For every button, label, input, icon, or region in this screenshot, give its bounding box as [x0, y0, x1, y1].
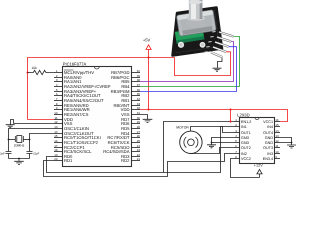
encoder mounting holes	[178, 42, 184, 48]
PIC pin 4 (RA2/AN2/VREF-/CVREF) stub	[54, 86, 63, 88]
L293D pin 6 (OUT2) stub	[235, 147, 240, 149]
capacitor C1 22pF	[6, 140, 12, 159]
svg-text:IN4: IN4	[267, 125, 273, 129]
svg-text:40: 40	[137, 69, 141, 73]
ground oscillator	[14, 159, 24, 165]
resistor R1 10k	[28, 70, 55, 74]
svg-text:20MHz: 20MHz	[14, 143, 25, 147]
PIC pin 1 (MCLR/Vpp/THV) stub	[54, 72, 63, 74]
svg-text:15: 15	[275, 123, 279, 127]
svg-text:20: 20	[54, 157, 58, 161]
svg-text:32: 32	[137, 106, 141, 110]
node crystal right	[29, 139, 31, 141]
wire VDD pin11	[28, 119, 55, 121]
encoder green base plate	[175, 27, 205, 43]
svg-text:13: 13	[54, 125, 58, 129]
svg-text:IN2: IN2	[241, 152, 247, 156]
PIC pin 39 (RB6/PGC) stub	[132, 77, 141, 79]
crystal X1 20MHz	[9, 139, 16, 141]
wire EN1,2 down to RD0 bus	[164, 122, 235, 173]
svg-text:21: 21	[137, 157, 141, 161]
ground motor	[207, 143, 216, 148]
svg-text:25: 25	[137, 139, 141, 143]
PIC pin 16 (RC1/T1OSI/CCP2) stub	[54, 142, 63, 144]
svg-text:22pF: 22pF	[0, 153, 5, 156]
junction node motor gnd	[211, 142, 213, 144]
L293D pin 1 (EN1,2) stub	[235, 121, 240, 123]
encoder shaft bushing	[187, 18, 205, 28]
wire VCC2 pin8 to +12V	[231, 159, 260, 178]
encoder pins	[219, 32, 234, 37]
PIC pin 14 (OSC2/CLKOUT) stub	[54, 133, 63, 135]
encoder metal body	[176, 10, 216, 37]
L293D U2 body	[240, 118, 275, 164]
L293D pin 5 (GND) stub	[235, 142, 240, 144]
junction node +5V	[148, 57, 150, 59]
encoder PCB	[173, 8, 223, 56]
svg-text:10k: 10k	[32, 66, 38, 70]
svg-text:RD1: RD1	[64, 158, 73, 163]
svg-text:10: 10	[275, 150, 279, 154]
svg-text:16: 16	[275, 118, 279, 122]
PIC pin 9 (RE1/AN6/WR) stub	[54, 109, 63, 111]
L293D pin 8 (VCC2) stub	[235, 158, 240, 160]
junction node MCLR rail	[27, 72, 29, 74]
PIC pin 25 (RC6/TX/CK) stub	[132, 142, 141, 144]
PIC pin 27 (RD4) stub	[132, 133, 141, 135]
ground encoder	[213, 68, 222, 71]
junction node VDD/+5V	[148, 109, 150, 111]
L293D pin 14 (OUT4) stub	[275, 132, 281, 134]
PIC16F877A U1 body	[63, 67, 132, 167]
svg-text:10: 10	[54, 111, 58, 115]
PIC pin 12 (VSS) stub	[54, 123, 63, 125]
wire blue encoder CLK to RB3	[140, 47, 237, 92]
wire motor+ to OUT1	[191, 127, 235, 133]
PIC pin 11 (VDD) stub	[54, 119, 63, 121]
motor M1 symbol	[180, 131, 202, 153]
L293D pin 2 (IN1) stub	[235, 126, 240, 128]
wire encoder GND pin	[218, 58, 223, 68]
PIC pin 33 (RB0/INT) stub	[132, 105, 141, 107]
L293D pin 10 (IN3) stub	[275, 153, 281, 155]
svg-text:15: 15	[54, 134, 58, 138]
wire cap bottom rail	[9, 158, 30, 160]
svg-text:OUT1: OUT1	[241, 131, 251, 135]
PIC pin 23 (RC4/SDI/SDA) stub	[132, 151, 141, 153]
svg-text:RD2: RD2	[121, 158, 130, 163]
PIC pin 13 (OSC1/CLKIN) stub	[54, 128, 63, 130]
encoder shaft	[189, 0, 203, 19]
L293D pin 3 (OUT1) stub	[235, 132, 240, 134]
svg-text:16: 16	[54, 139, 58, 143]
wire motor- to OUT2	[191, 148, 235, 154]
encoder pin labels silk	[212, 31, 216, 33]
svg-text:GND: GND	[241, 136, 250, 140]
svg-text:22pF: 22pF	[33, 153, 39, 156]
node rail center	[18, 158, 20, 160]
svg-text:11: 11	[275, 144, 278, 148]
PIC pin 7 (RA5/AN4/SS/C2OUT) stub	[54, 100, 63, 102]
ground L293D	[287, 143, 296, 149]
wire +5V down to VDD bus	[148, 58, 150, 110]
PIC pin 32 (VDD) stub	[132, 109, 141, 111]
ground VSS pin31	[140, 115, 152, 123]
svg-text:OUT3: OUT3	[263, 146, 273, 150]
svg-text:MOTOR: MOTOR	[176, 125, 189, 129]
svg-text:34: 34	[137, 97, 141, 101]
svg-text:GND: GND	[265, 141, 274, 145]
L293D pin 11 (OUT3) stub	[275, 147, 281, 149]
svg-text:OUT2: OUT2	[241, 146, 251, 150]
red +5V rail left	[28, 58, 175, 120]
PIC pin 18 (RC3/SCK/SCL) stub	[54, 151, 63, 153]
svg-text:L293D: L293D	[237, 112, 249, 117]
L293D pin 16 (VCC1) stub	[275, 121, 281, 123]
PIC pin 40 (RB7/PGD) stub	[132, 72, 141, 74]
wire RD1 pin20 to L293D IN2	[44, 154, 235, 177]
L293D pin 7 (IN2) stub	[235, 153, 240, 155]
svg-text:IN3: IN3	[267, 152, 273, 156]
MCLR overbar	[64, 69, 74, 71]
PIC pin 8 (RE0/AN5/RD) stub	[54, 105, 63, 107]
PIC pin 2 (RA0/AN0) stub	[54, 77, 63, 79]
PIC pin 35 (RB2) stub	[132, 95, 141, 97]
PIC pin 31 (VSS) stub	[132, 114, 141, 116]
L293D pin 12 (GND) stub	[275, 142, 281, 144]
node crystal left	[8, 139, 10, 141]
junction node VDD/EN drop	[230, 109, 232, 111]
svg-text:PIC16F877A: PIC16F877A	[63, 62, 87, 67]
PIC pin 29 (RD6) stub	[132, 123, 141, 125]
wire L293D GND pins 4,5	[212, 138, 235, 143]
svg-text:14: 14	[275, 129, 279, 133]
PIC pin 28 (RD5) stub	[132, 128, 141, 130]
rotary encoder module photo	[173, 0, 234, 57]
L293D pin 9 (EN3,4) stub	[275, 158, 281, 160]
L293D pin 4 (GND) stub	[235, 137, 240, 139]
svg-text:+5V: +5V	[143, 38, 151, 43]
PIC pin 37 (RB4) stub	[132, 86, 141, 88]
PIC pin 20 (RD1) stub	[54, 160, 63, 162]
PIC pin 38 (RB5) stub	[132, 81, 141, 83]
wire purple encoder SW to RB5	[140, 42, 234, 82]
PIC pin 19 (RD0) stub	[54, 156, 63, 158]
svg-text:IN1: IN1	[241, 125, 247, 129]
svg-text:18: 18	[54, 148, 58, 152]
PIC pin 6 (RA4/T0CKI/C1OUT) stub	[54, 95, 63, 97]
svg-text:35: 35	[137, 92, 141, 96]
wire green encoder DT to RB4	[140, 37, 240, 87]
wire OSC2 pin14	[30, 134, 55, 140]
PIC pin 5 (RA3/AN3/VREF+) stub	[54, 91, 63, 93]
svg-text:OUT4: OUT4	[263, 131, 273, 135]
svg-text:EN1,2: EN1,2	[241, 120, 251, 124]
wire VDD pin32 to L293D VCC1	[140, 110, 288, 122]
svg-text:38: 38	[137, 78, 141, 82]
wire red drop to EN1,2	[230, 110, 232, 122]
PIC pin 34 (RB1) stub	[132, 100, 141, 102]
wire L293D GND pins 13,12	[280, 138, 292, 143]
PIC pin 30 (RD7) stub	[132, 119, 141, 121]
L293D pin 15 (IN4) stub	[275, 126, 281, 128]
svg-text:VCC2: VCC2	[241, 157, 251, 161]
junction node L293D gnd	[291, 142, 293, 144]
PIC pin 10 (RE2/AN7/CS) stub	[54, 114, 63, 116]
svg-text:31: 31	[137, 111, 141, 115]
svg-text:EN3,4: EN3,4	[263, 157, 273, 161]
wire RD0 pin19 bus	[47, 127, 235, 173]
svg-text:26: 26	[137, 134, 141, 138]
svg-text:29: 29	[137, 120, 141, 124]
PIC pin 24 (RC5/SDO) stub	[132, 147, 141, 149]
svg-text:37: 37	[137, 83, 141, 87]
L293D pin 13 (GND) stub	[275, 137, 281, 139]
svg-text:28: 28	[137, 125, 141, 129]
PIC pin 3 (RA1/AN1) stub	[54, 81, 63, 83]
svg-text:12: 12	[54, 120, 58, 124]
PIC pin 15 (RC0/T1OSO/T1CKI) stub	[54, 137, 63, 139]
svg-text:12: 12	[275, 139, 279, 143]
wire OSC1 pin13	[9, 129, 55, 140]
svg-text:GND: GND	[265, 136, 274, 140]
svg-text:GND: GND	[241, 141, 250, 145]
svg-text:13: 13	[275, 134, 279, 138]
PIC pin 17 (RC2/CCP1) stub	[54, 147, 63, 149]
capacitor C2 22pF	[27, 139, 33, 159]
PIC pin 36 (RB3/PGM) stub	[132, 91, 141, 93]
PIC pin 26 (RC7/RX/DT) stub	[132, 137, 141, 139]
svg-text:+12V: +12V	[254, 163, 263, 167]
svg-text:VCC1: VCC1	[263, 120, 273, 124]
ground VSS pin12	[14, 123, 55, 125]
wire red +5V to encoder + pin	[175, 52, 231, 76]
PIC pin 21 (RD2) stub	[132, 160, 141, 162]
PIC pin 22 (RD3) stub	[132, 156, 141, 158]
svg-text:23: 23	[137, 148, 141, 152]
